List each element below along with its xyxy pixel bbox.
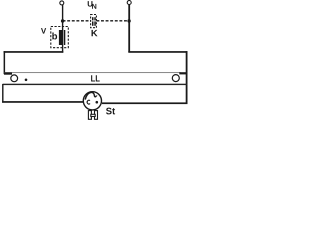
starter pin right (95, 111, 98, 120)
starter fixed electrode loop (87, 100, 90, 104)
lamp electrode left (11, 75, 18, 82)
starter St body circle (83, 92, 101, 110)
lamp filament dot (25, 79, 28, 82)
wire right outer vertical (186, 51, 188, 104)
lamp tube top edge (grey) (5, 72, 181, 73)
label St (106, 108, 115, 115)
lamp tube cap bar left (4, 72, 12, 74)
label UN (88, 1, 97, 9)
capacitor K dashed enclosure (91, 15, 97, 28)
wire right vertical from terminal down (128, 4, 130, 52)
starter pin left (88, 111, 91, 120)
label b (52, 33, 57, 40)
node junction right (127, 19, 130, 22)
capacitor K plate gap notch (92, 20, 96, 21)
wire left vertical from terminal to choke (62, 5, 63, 31)
wire from choke down (62, 45, 63, 53)
wire bottom run right of starter (102, 102, 188, 104)
lamp electrode right (172, 75, 179, 82)
inductor core line (64, 30, 66, 45)
wire dashed branch right segment (96, 20, 128, 22)
label V (41, 28, 46, 34)
capacitor K plates (92, 17, 94, 26)
inductor choke winding (filled rect) (59, 30, 63, 45)
starter pin bridge (91, 114, 95, 116)
node junction left (61, 19, 64, 22)
wire bottom run left of starter (2, 101, 83, 103)
label K (92, 30, 98, 36)
starter electrode dot (96, 101, 99, 104)
starter bimetal electrode squiggle (85, 92, 97, 99)
wire right horizontal run (128, 51, 187, 53)
ballast V dashed enclosure (51, 27, 69, 48)
lamp tube cap bar right (179, 72, 187, 74)
terminal left (supply) (60, 1, 64, 5)
wire left horizontal run (4, 51, 64, 53)
label LL (91, 75, 100, 81)
lamp tube bottom edge (3, 84, 188, 85)
wire dashed branch left segment (63, 20, 91, 22)
terminal right (supply) (127, 1, 131, 5)
wire left down to lamp (4, 51, 6, 74)
wire lower left vertical (2, 84, 3, 103)
